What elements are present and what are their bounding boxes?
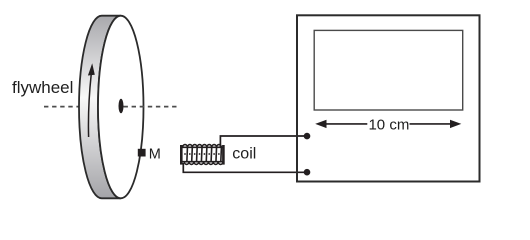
coil top bumps — [183, 145, 222, 148]
rotation arrow head — [88, 63, 95, 75]
hub (centre dot) — [119, 99, 124, 114]
dashed axis line left segment — [44, 106, 79, 108]
terminal dot top — [304, 133, 311, 140]
svg-text:coil: coil — [232, 146, 256, 163]
coil turn lines — [187, 147, 222, 161]
flywheel face (front ellipse) — [98, 16, 144, 199]
rotation arrow shaft — [88, 75, 91, 138]
right arrowhead — [450, 120, 461, 128]
screen inner rectangle — [314, 30, 463, 110]
10 cm dimension arrow right part — [410, 123, 453, 125]
wire bottom — [183, 163, 307, 172]
flywheel rim (side band) — [79, 16, 121, 199]
coil top horizontal line — [181, 146, 224, 148]
svg-text:flywheel: flywheel — [12, 78, 73, 97]
10 cm dimension arrow left part — [324, 123, 367, 125]
coil right end bar — [222, 145, 225, 165]
coil bottom bumps — [184, 162, 223, 165]
svg-text:M: M — [149, 146, 161, 162]
oscilloscope outer box — [297, 15, 480, 181]
terminal dot bottom — [304, 169, 311, 176]
coil bottom horizontal line — [181, 161, 224, 163]
dashed axis line right segment — [124, 106, 178, 108]
left arrowhead — [315, 120, 326, 128]
coil turn back-wire nubs — [184, 153, 220, 155]
wire top — [220, 136, 307, 147]
svg-text:10 cm: 10 cm — [368, 117, 409, 134]
coil left end bar — [180, 145, 183, 165]
magnet M (black square) — [138, 149, 146, 157]
